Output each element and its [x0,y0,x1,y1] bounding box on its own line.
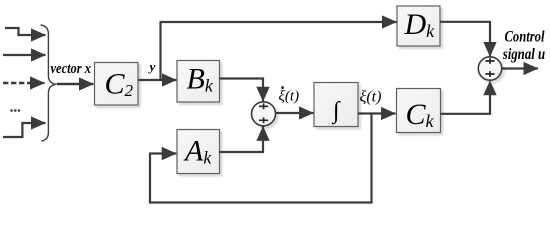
feedback wire from integrator output down and around to Ak [150,114,372,203]
input signal arrow 2 [3,54,46,56]
svg-text:y: y [148,59,156,74]
wire top line to Dk [160,21,397,23]
brace [41,25,56,141]
wire summer1 to integrator [276,112,314,114]
svg-text:signal u: signal u [502,46,545,63]
wire Ck to summer 2 [441,81,491,114]
svg-text:Control: Control [505,29,545,46]
block Bk [177,61,220,103]
wire Dk to summer 2 [440,22,490,57]
svg-text:ξ(t): ξ(t) [360,89,382,106]
wire C2 to Bk [138,79,177,81]
node y junction vertical riser [159,23,161,80]
input signal arrow 3 (dashed) [3,82,45,85]
wire brace to C2 [57,83,94,85]
wire integrator to Ck [358,112,396,114]
wire Ak to summer 1 [220,126,264,152]
block Dk [397,6,440,46]
block integrator [314,83,358,127]
output arrow control signal u [502,67,538,69]
block Ak [177,130,220,174]
input signal arrow 1 (step down) [5,28,46,35]
ellipsis dots [10,109,20,112]
svg-text:ξ(t): ξ(t) [279,89,300,105]
input signal arrow 4 (step up) [3,123,46,137]
summing junction S1 [252,102,276,126]
summing junction S2 [478,57,501,80]
label xi-dot(t) [279,86,300,104]
block Ck [397,89,441,133]
wire Bk to summer 1 [220,79,264,102]
block C2 [95,63,139,106]
svg-text:vector x: vector x [51,61,92,77]
svg-text:∫: ∫ [331,98,341,125]
